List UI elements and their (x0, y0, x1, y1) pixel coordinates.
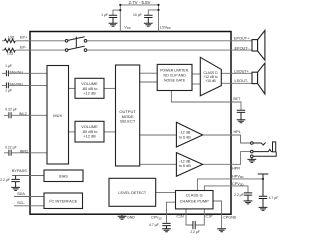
wire EP- to EPOUT- (87, 49, 252, 51)
pin label CPVDD (232, 182, 244, 187)
wire VOLUME2 to OMS (104, 131, 116, 133)
capacitor SET (237, 110, 245, 119)
wire supply rail (120, 4, 158, 6)
svg-text:2.2 µF: 2.2 µF (190, 230, 200, 234)
junction dot HPVDD (262, 178, 264, 180)
svg-text:EP+: EP+ (20, 36, 28, 40)
capacitor 4.7uF CPVSS (162, 223, 170, 228)
svg-text:0.22 µF: 0.22 µF (5, 146, 17, 150)
svg-text:POWER LIMITER,: POWER LIMITER, (160, 68, 189, 72)
speaker earpiece (252, 31, 265, 61)
pin label HPVDD (232, 174, 244, 179)
svg-text:LEVEL DETECT: LEVEL DETECT (118, 191, 147, 195)
wire power limiter to class D ch2 (192, 83, 200, 85)
svg-text:BYPASS: BYPASS (12, 169, 27, 173)
capacitor 1uF INL1 (6, 70, 8, 76)
amplifier HP left (176, 122, 202, 147)
svg-text:INR2: INR2 (20, 150, 29, 154)
wire INM+/INL1 (2, 72, 48, 74)
svg-text:GND: GND (127, 215, 135, 219)
wire OMS to power limiter ch1 (140, 72, 158, 74)
wire C1P (196, 209, 205, 225)
svg-text:HPL: HPL (234, 130, 241, 134)
svg-text:4.7 µF: 4.7 µF (149, 223, 159, 227)
svg-text:10 µF: 10 µF (133, 13, 142, 17)
svg-text:INM-/INR1: INM-/INR1 (10, 82, 24, 86)
svg-text:I²C INTERFACE: I²C INTERFACE (49, 198, 78, 203)
svg-text:1 µF: 1 µF (5, 64, 12, 68)
wire LEVEL DETECT to charge pump (156, 192, 176, 194)
wire OMS to HP amp L (140, 134, 177, 136)
svg-text:CPGND: CPGND (223, 216, 236, 220)
ground CPGND (217, 229, 226, 232)
svg-text:EPOUT-: EPOUT- (235, 46, 250, 50)
junction dot rail right (157, 4, 159, 6)
svg-text:10Ω: 10Ω (7, 51, 14, 55)
block LEVEL DETECT (109, 178, 156, 206)
svg-text:+12 dB: +12 dB (83, 134, 96, 139)
wire INR2 (4, 152, 48, 154)
svg-text:DD: DD (240, 183, 244, 187)
junction dot C2 branch (157, 9, 159, 11)
wire MUX to VOLUME2 (69, 131, 76, 133)
svg-text:-12 dB: -12 dB (179, 131, 191, 135)
wire HPR output (203, 152, 251, 165)
wire CPGND (213, 201, 221, 229)
block I2C INTERFACE (44, 193, 83, 209)
capacitor 1uF VDD (109, 15, 117, 23)
svg-text:CHARGE PUMP: CHARGE PUMP (180, 198, 209, 203)
pin label CPVSS (151, 216, 162, 221)
svg-text:10Ω: 10Ω (8, 36, 15, 40)
svg-text:CLASS G: CLASS G (186, 193, 203, 198)
block MUX (47, 66, 69, 165)
wire INL2 (4, 114, 48, 116)
svg-text:NO CLIP AND: NO CLIP AND (164, 73, 187, 77)
ground jack sleeve (247, 159, 256, 162)
block OUTPUT MODE SELECT (116, 65, 140, 166)
resistor 10 ohm EP- (5, 48, 16, 52)
headphone jack sleeve contact (251, 152, 277, 160)
svg-text:SDA: SDA (17, 192, 25, 196)
wire CPVSS (167, 202, 176, 223)
wire CPVDD (204, 186, 248, 193)
junction dot C1 branch (119, 9, 121, 11)
wire LSOUT- (221, 82, 252, 84)
resistor 10 ohm EP+ (5, 39, 16, 43)
wire C1N (186, 209, 193, 225)
svg-text:-12 dB: -12 dB (179, 159, 191, 163)
terminal bar HPVDD (258, 174, 269, 179)
capacitor 2.2uF flying (193, 221, 195, 229)
svg-text:SELECT: SELECT (120, 119, 136, 124)
capacitor 2.2uF BYPASS (11, 176, 19, 188)
svg-text:C1P: C1P (206, 215, 214, 219)
svg-text:LSOUT+: LSOUT+ (234, 69, 250, 73)
capacitor 0.22uF INL2 (9, 112, 11, 118)
wire BYPASS to BIAS (12, 175, 44, 177)
svg-text:DD: DD (127, 26, 131, 30)
wire LSVDD drop (158, 5, 160, 32)
svg-text:HPR: HPR (232, 166, 240, 170)
pin label LSVDD (160, 25, 171, 30)
block VOLUME 2 (75, 121, 104, 142)
svg-text:DD: DD (240, 175, 244, 179)
ground HPVDD cap (259, 207, 268, 210)
headphone jack tip contact (251, 142, 266, 145)
wire OMS to HP amp R (140, 163, 177, 165)
svg-text:+18 dB: +18 dB (205, 79, 216, 83)
wire SET from power limiter (171, 91, 241, 111)
wire VOLUME1 to OMS (104, 87, 116, 89)
svg-text:1 µF: 1 µF (5, 88, 12, 92)
speaker loudspeaker (252, 63, 265, 94)
capacitor 2.2uF CPVDD (244, 193, 252, 201)
amplifier HP right (176, 153, 202, 177)
svg-text:2.2 µF: 2.2 µF (0, 178, 10, 182)
svg-text:+12 dB: +12 dB (83, 91, 96, 96)
svg-text:C1N: C1N (176, 215, 184, 219)
wire INM-/INR1 (2, 84, 48, 86)
wire EP- input (2, 49, 65, 51)
wire power limiter to class D ch1 (192, 73, 200, 75)
ground SET cap (237, 120, 246, 123)
headphone jack ring contact (251, 149, 273, 153)
svg-text:2.7V - 5.5V: 2.7V - 5.5V (129, 0, 151, 5)
wire EP+ input (2, 40, 65, 42)
wire branch to C1 (113, 10, 120, 15)
ground BYPASS cap (11, 187, 20, 190)
svg-text:SCL: SCL (17, 201, 24, 205)
svg-text:1 µF: 1 µF (101, 13, 108, 17)
block VOLUME 1 (75, 78, 104, 98)
svg-text:EP-: EP- (20, 45, 27, 49)
svg-text:SS: SS (158, 217, 162, 220)
wire SDA (14, 196, 44, 198)
wire OMS to power limiter ch2 (140, 81, 158, 83)
IC chip boundary U1 (30, 32, 231, 215)
capacitor 10uF LSVDD (144, 15, 152, 23)
capacitor 4.7uF HPVDD (259, 179, 267, 207)
capacitor 1uF INR1 (6, 83, 8, 89)
wire LSOUT+ (221, 72, 252, 74)
wire HPVDD (197, 179, 263, 191)
ground C2 (144, 23, 153, 26)
svg-text:to 6 dB: to 6 dB (179, 164, 191, 168)
ground CPVDD cap (244, 201, 253, 204)
amplifier CLASS D (200, 57, 221, 96)
headphone jack plug (273, 142, 276, 152)
svg-text:DD: DD (167, 26, 171, 30)
ground C1 (109, 23, 118, 26)
wire EP+ to EPOUT+ (87, 40, 252, 42)
wire MUX to VOLUME1 (69, 87, 76, 89)
svg-text:NOISE GATE: NOISE GATE (164, 78, 186, 82)
svg-text:2.2 µF: 2.2 µF (234, 193, 244, 197)
svg-text:SET: SET (233, 97, 241, 101)
ground GND pin (118, 214, 127, 219)
block BIAS (44, 170, 83, 182)
svg-text:EPOUT+: EPOUT+ (234, 36, 250, 40)
svg-text:0.22 µF: 0.22 µF (5, 107, 17, 111)
svg-text:MUX: MUX (53, 113, 62, 118)
capacitor 0.22uF INR2 (9, 150, 11, 156)
wire VDD drop (119, 5, 121, 32)
svg-text:LSOUT-: LSOUT- (235, 79, 249, 83)
wire HPL output (203, 135, 251, 143)
ground CPVSS cap (162, 229, 171, 232)
svg-text:to 6 dB: to 6 dB (179, 135, 191, 139)
svg-text:INM+/INL1: INM+/INL1 (10, 70, 24, 74)
junction dot rail left (119, 4, 121, 6)
svg-text:BIAS: BIAS (59, 174, 68, 178)
wire branch to C2 (148, 10, 158, 15)
block CLASS G CHARGE PUMP (176, 191, 214, 209)
switch S1 bypass (65, 37, 87, 52)
wire SCL (14, 205, 44, 207)
block POWER LIMITER (157, 64, 192, 90)
svg-text:4.7 µF: 4.7 µF (269, 196, 279, 200)
pin label VDD (124, 25, 130, 30)
svg-text:INL2: INL2 (19, 112, 27, 116)
